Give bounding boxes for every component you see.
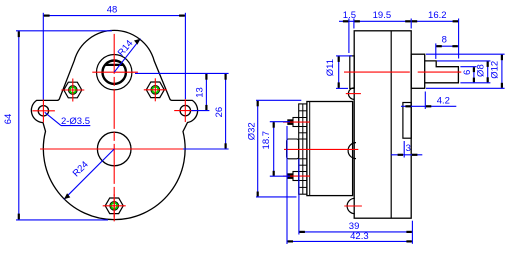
svg-text:Ø32: Ø32 [246,122,257,140]
motor brush flange [287,139,299,159]
motor end cap [299,104,307,194]
dimension 39 (bottom) [299,159,413,244]
svg-text:Ø8: Ø8 [475,64,486,77]
dimension Ø8 (shaft diameter) [437,61,490,83]
dimension 8 (shaft flat length) [436,35,459,59]
rear motor boss bump (middle) [348,143,356,159]
dimension 4.2 (boss length) [401,92,456,109]
gearbox split line [390,31,392,218]
motor can [307,102,353,196]
right ear hole crosshair [174,99,197,122]
svg-text:18.7: 18.7 [261,131,272,150]
svg-text:19.5: 19.5 [373,10,392,21]
svg-text:42.3: 42.3 [350,231,369,242]
svg-text:64: 64 [3,114,14,125]
svg-text:4.2: 4.2 [437,96,450,107]
gearbox body outline (front view) [31,30,197,219]
Ø12 output boss (side view) [411,54,425,88]
Ø11 bearing boss (rear) [350,56,354,89]
dimension 13 (shaft center to ear centers) [135,73,229,110]
hex screw upper-right [144,78,167,101]
svg-text:16.2: 16.2 [428,10,447,21]
right ear mounting hole Ø3.5 [180,105,190,115]
rear screw bump bottom [347,198,355,213]
gearbox face rib [403,103,411,139]
horizontal center line through shaft (front view) [92,71,138,73]
motor terminal 1 (upper) [287,119,293,125]
output shaft (side view) [425,61,459,83]
dimension 26 (shaft center to central hole) [183,73,229,149]
dimension 18.7 (terminal spacing) [261,122,290,177]
dimension Ø12 (boss diameter) [426,54,505,88]
label 2-Ø3.5 with leader [45,112,91,127]
motor axis center line (side view) [284,148,358,150]
svg-text:8: 8 [442,35,447,46]
motor terminal 2 (lower) [287,173,293,179]
svg-text:48: 48 [107,5,118,16]
svg-text:13: 13 [194,87,205,98]
svg-text:1.5: 1.5 [343,10,356,21]
central hole circle (front view) [97,132,131,166]
vertical center line (front view) [113,34,115,222]
output shaft hole circle (front view, Ø8 thick) [103,60,126,83]
hex screw upper-left [61,79,84,102]
svg-text:6: 6 [462,70,473,75]
motor can crimp line [309,102,311,196]
dimension 3 (face notch) [391,141,422,158]
radius label R14 with leader [114,38,140,72]
terminal 2 center line [283,175,310,177]
dimension Ø32 (motor diameter) [246,100,301,197]
terminal 1 center line [283,121,310,123]
dimension 6 (shaft flat width) [460,67,476,83]
rear screw bump top [348,88,354,100]
gearbox side view outline [354,31,411,218]
radius label R24 with leader [64,149,114,199]
svg-text:3: 3 [406,143,411,154]
hex screw bottom [103,194,126,217]
dimension 42.3 (bottom overall) [287,126,412,244]
svg-text:Ø11: Ø11 [325,59,336,76]
horizontal center line through central hole (front view) [40,148,188,150]
shaft axis center line (side view) [344,71,410,73]
left ear mounting hole Ø3.5 [38,106,48,116]
left ear hole crosshair [32,100,55,123]
svg-text:26: 26 [214,107,225,118]
dimension 48 (top width across ear holes) [43,5,185,100]
shaft flat chord (front view) [105,64,124,66]
output shaft boss circle (front view, Ø12) [97,54,132,89]
svg-text:Ø12: Ø12 [490,61,501,79]
dimension 64 (left height) [3,31,112,220]
dimension Ø11 (rear boss) [325,56,352,89]
svg-text:2-Ø3.5: 2-Ø3.5 [61,116,90,127]
svg-text:R24: R24 [71,159,91,179]
dimension row 1.5 / 19.5 / 16.2 (top) [339,10,459,58]
